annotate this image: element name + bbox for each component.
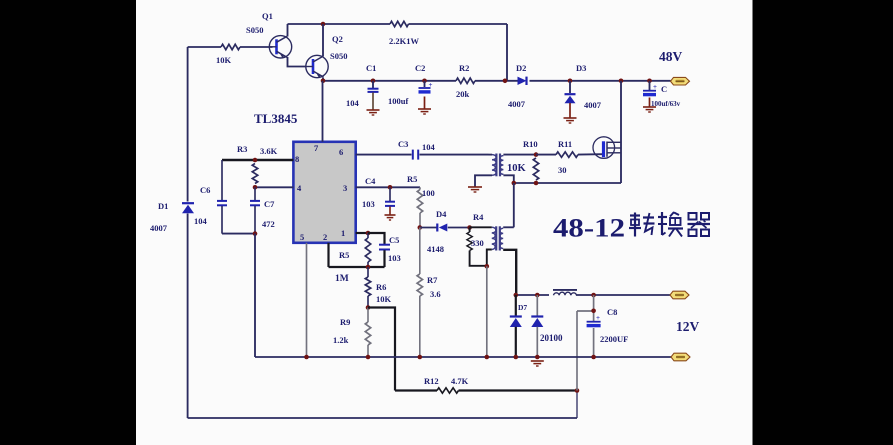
svg-text:C2: C2 (415, 63, 425, 73)
svg-text:R5: R5 (407, 174, 417, 184)
svg-text:100: 100 (422, 188, 435, 198)
node rail D7a (514, 355, 519, 360)
label D7 (518, 303, 527, 312)
ground C1 (367, 110, 380, 115)
terminal 12V- (671, 353, 690, 361)
label C6 (200, 185, 210, 195)
node D7b top (535, 293, 540, 298)
svg-text:D7: D7 (518, 303, 527, 312)
pin 1 label (341, 228, 345, 238)
transformer T2 left winding (492, 227, 496, 249)
inductor L1 (553, 290, 577, 295)
wire T1 left top (489, 154, 493, 156)
wire pin 5 leg (306, 243, 308, 357)
wire T2 left drop (486, 266, 488, 357)
wire right feedback riser (576, 391, 578, 419)
node C cap tap (647, 79, 652, 84)
wire pin 2 leg (327, 243, 329, 267)
label R12 value 4.7K (451, 376, 469, 386)
capacitor C5 (368, 233, 390, 267)
label C8 value 2200UF (600, 334, 628, 344)
wire pin 1 stub (356, 232, 368, 234)
node C2 top (422, 79, 427, 84)
svg-text:48V: 48V (659, 49, 683, 64)
label R11 value 30 (558, 165, 567, 175)
svg-text:30: 30 (558, 165, 567, 175)
resistor R5b 100 (417, 187, 422, 227)
resistor 10K (Q1 base) (221, 44, 240, 49)
svg-text:Q1: Q1 (262, 11, 273, 21)
terminal 48V (671, 77, 690, 85)
svg-text:R5: R5 (339, 250, 349, 260)
transformer T1 right winding (500, 156, 503, 175)
node top rail / Q2 collector (321, 22, 326, 27)
label TL3845 (254, 111, 298, 126)
label Q1 (262, 11, 273, 21)
pin 6 label (339, 147, 343, 157)
label C5 (389, 235, 399, 245)
svg-text:104: 104 (346, 98, 360, 108)
capacitor C7 (250, 187, 260, 233)
svg-text:R11: R11 (558, 139, 572, 149)
resistor R9 1.2k (365, 308, 370, 358)
svg-text:2200UF: 2200UF (600, 334, 628, 344)
ground C4 (385, 215, 396, 220)
wire D4 row (420, 227, 470, 229)
label 2.2K1W (389, 36, 419, 46)
label C8 (607, 307, 617, 317)
svg-text:100uf/63v: 100uf/63v (651, 100, 681, 108)
wire Q2 emitter (322, 78, 324, 81)
svg-text:R9: R9 (340, 317, 350, 327)
svg-text:C3: C3 (398, 139, 408, 149)
transistor Q1 (269, 36, 291, 58)
node D4 left (418, 225, 423, 230)
node pin8/R3 (253, 158, 258, 163)
svg-text:2.2K1W: 2.2K1W (389, 36, 419, 46)
label R9 value 1.2k (333, 335, 349, 345)
wire MOSFET drain drop (620, 81, 622, 183)
label R5 value 1M (335, 274, 349, 284)
transformer T2 core (496, 226, 500, 250)
label R9 (340, 317, 350, 327)
label C6 value 104 (194, 216, 208, 226)
label R2 (459, 63, 469, 73)
resistor R7 3.6 (417, 228, 422, 358)
svg-text:Q2: Q2 (332, 34, 343, 44)
svg-text:R7: R7 (427, 275, 438, 285)
wire C8 feedback riser (577, 311, 594, 391)
wire Q1 emitter to Q2 base (288, 57, 307, 67)
svg-text:330: 330 (471, 238, 484, 248)
label R12 (424, 376, 439, 386)
capacitor C4 (385, 187, 395, 214)
svg-text:+: + (653, 83, 657, 91)
resistor R5 1M (365, 233, 370, 267)
wire top rail drop (506, 24, 508, 81)
label R2 value 20k (456, 89, 470, 99)
transistor Q2 (306, 55, 328, 77)
node rail R7 (418, 355, 423, 360)
label R4 value 330 (471, 238, 484, 248)
wire source row (514, 182, 621, 184)
svg-text:S050: S050 (330, 51, 347, 61)
node rail C8 (591, 355, 596, 360)
capacitor C1 (368, 81, 379, 110)
label R11 (558, 139, 572, 149)
ground C (643, 107, 656, 112)
svg-text:C1: C1 (366, 63, 376, 73)
wire T2 right top (503, 226, 514, 228)
label 48V (659, 49, 683, 64)
capacitor C6 (217, 160, 227, 234)
svg-text:4007: 4007 (150, 223, 168, 233)
svg-text:4148: 4148 (427, 244, 444, 254)
resistor R6 10K (365, 267, 370, 308)
label R5b (407, 174, 417, 184)
svg-text:4007: 4007 (584, 100, 602, 110)
svg-text:5: 5 (300, 232, 304, 242)
label Q2 (332, 34, 343, 44)
label C3 value 104 (422, 142, 436, 152)
node D3 tap (568, 79, 573, 84)
label R3 value 3.6K (260, 146, 278, 156)
ground C2 (418, 109, 431, 114)
svg-text:2: 2 (323, 232, 327, 242)
label title 48-12 (553, 213, 625, 243)
svg-text:12V: 12V (676, 319, 700, 334)
label R7 value 3.6 (430, 289, 441, 299)
node rail T2 (485, 355, 490, 360)
label C1 (366, 63, 376, 73)
label 12V (676, 319, 700, 334)
svg-text:472: 472 (262, 219, 275, 229)
svg-text:C5: C5 (389, 235, 399, 245)
wire pin 6 (356, 154, 489, 156)
svg-text:C4: C4 (365, 176, 376, 186)
node R5 bottom (366, 265, 371, 270)
svg-text:D2: D2 (516, 63, 526, 73)
label C value 100uf/63v (651, 100, 681, 108)
node C8 feedback tap (591, 309, 596, 314)
diode D4 (437, 224, 447, 232)
wire feedback to R12 (368, 308, 395, 391)
label D4 (436, 209, 447, 219)
ground D3 (564, 118, 577, 123)
label C plus (653, 83, 657, 91)
svg-text:3.6: 3.6 (430, 289, 441, 299)
node rail pin5 (304, 355, 309, 360)
svg-text:D4: D4 (436, 209, 447, 219)
svg-text:S050: S050 (246, 25, 263, 35)
label C7 (264, 199, 275, 209)
wire C6-C7 bottom (222, 233, 255, 235)
pin 8 label (295, 154, 299, 164)
svg-text:4007: 4007 (508, 99, 526, 109)
wire T2 right bottom (503, 250, 516, 295)
svg-text:R12: R12 (424, 376, 439, 386)
label R6 value 10K (376, 294, 392, 304)
wire T1 right top (503, 154, 536, 156)
label C4 (365, 176, 376, 186)
label C2 plus (429, 81, 433, 89)
ground output (531, 361, 544, 366)
label R10 value 10K (507, 163, 527, 174)
label R3 (237, 144, 247, 154)
svg-text:20100: 20100 (540, 333, 563, 343)
node MOSFET drain tap (619, 79, 624, 84)
label C2 (415, 63, 425, 73)
label D7 value 20100 (540, 333, 563, 343)
transformer T1 core (496, 154, 500, 177)
capacitor C2 (419, 81, 431, 109)
label title char huan (658, 212, 683, 237)
label C1 value 104 (346, 98, 360, 108)
label R6 (376, 282, 386, 292)
svg-text:1M: 1M (335, 274, 349, 284)
wire Q1 collector (287, 24, 289, 37)
label D4 value 4148 (427, 244, 444, 254)
ground T1 (468, 187, 482, 192)
node R10 top (534, 152, 539, 157)
wire pin 7 VCC (322, 81, 324, 142)
svg-text:1: 1 (341, 228, 345, 238)
capacitor C3 (413, 150, 418, 160)
transformer T1 left winding (492, 155, 496, 176)
MOSFET Q3 (593, 137, 621, 159)
svg-text:4.7K: 4.7K (451, 376, 469, 386)
wire left border vertical (187, 47, 189, 418)
node R4 top (467, 225, 472, 230)
wire T2 left bottom (487, 250, 492, 267)
label D2 value 4007 (508, 99, 526, 109)
label R5 (339, 250, 349, 260)
label D2 (516, 63, 526, 73)
resistor R12 4.7K (437, 388, 459, 393)
label R10 (523, 139, 538, 149)
svg-text:C6: C6 (200, 185, 210, 195)
pin 5 label (300, 232, 304, 242)
node T2 drop (512, 181, 517, 186)
label C2 value 100uf (388, 96, 408, 106)
node C4 tap (388, 185, 393, 190)
svg-text:+: + (596, 314, 600, 322)
diode D7a (510, 295, 522, 357)
svg-text:R4: R4 (473, 212, 484, 222)
diode D3 branch (565, 81, 576, 118)
svg-text:103: 103 (388, 253, 401, 263)
diode D2 (518, 77, 527, 85)
node R6 bottom (366, 305, 371, 310)
svg-text:C8: C8 (607, 307, 617, 317)
label D3 (576, 63, 586, 73)
IC U1 TL3845 body (293, 142, 355, 243)
wire T2 left top (470, 226, 492, 228)
label C8 plus (596, 314, 600, 322)
wire R12 rail (395, 389, 577, 391)
svg-text:8: 8 (295, 154, 299, 164)
wire pin3 row (356, 186, 420, 188)
svg-text:C7: C7 (264, 199, 275, 209)
label C (661, 84, 667, 94)
wire pin 8 (222, 159, 293, 161)
terminal 12V+ (670, 291, 689, 299)
label title char zhuan (629, 213, 655, 237)
svg-text:103: 103 (362, 199, 375, 209)
svg-text:1.2k: 1.2k (333, 335, 349, 345)
svg-text:D3: D3 (576, 63, 586, 73)
node Q2 emitter (321, 79, 326, 84)
svg-text:10K: 10K (216, 55, 232, 65)
node R2/D2 (503, 79, 508, 84)
resistor 2.2K 1W (390, 21, 409, 26)
label R4 (473, 212, 484, 222)
label D1 (158, 201, 168, 211)
label Q1 S050 (246, 25, 263, 35)
diode D1 (182, 203, 194, 213)
node rail R9 (366, 355, 371, 360)
svg-text:R3: R3 (237, 144, 247, 154)
svg-text:3.6K: 3.6K (260, 146, 278, 156)
node R10 bottom (534, 181, 539, 186)
capacitor C8 (587, 295, 601, 357)
label C3 (398, 139, 408, 149)
resistor R10 10K (533, 158, 538, 180)
label R5b value 100 (422, 188, 435, 198)
capacitor C (input) (643, 81, 656, 107)
node pin1 (366, 231, 371, 236)
wire T1 right bottom (503, 175, 513, 183)
label title char qi (688, 213, 711, 236)
svg-text:100uf: 100uf (388, 96, 408, 106)
wire ground rail (255, 356, 671, 358)
wire pin2-R5-C5 bottom (329, 266, 385, 268)
svg-text:R10: R10 (523, 139, 538, 149)
svg-text:20k: 20k (456, 89, 470, 99)
wire VCC rail (323, 80, 671, 82)
node C7 bottom (253, 231, 258, 236)
pin 2 label (323, 232, 327, 242)
wire T1 left bottom to ground (475, 175, 492, 186)
resistor R2 (456, 78, 475, 83)
svg-text:10K: 10K (507, 163, 527, 174)
label 10K (216, 55, 232, 65)
wire output top row (516, 294, 670, 296)
wire bottom border (188, 417, 577, 419)
svg-text:104: 104 (194, 216, 208, 226)
node C8 top (591, 293, 596, 298)
svg-text:48-12: 48-12 (553, 213, 625, 243)
diode D7b (531, 295, 543, 357)
label Q2 S050 (330, 51, 347, 61)
pin 4 label (297, 183, 302, 193)
label C4 value 103 (362, 199, 375, 209)
resistor R11 30 (556, 152, 578, 157)
svg-text:D1: D1 (158, 201, 168, 211)
label D1 value 4007 (150, 223, 168, 233)
node pin4/C7 (253, 185, 258, 190)
svg-text:R6: R6 (376, 282, 386, 292)
wire T1 drop to T2 (513, 183, 515, 227)
node C1 top (371, 79, 376, 84)
svg-text:104: 104 (422, 142, 436, 152)
node rail D7b (535, 355, 540, 360)
svg-text:6: 6 (339, 147, 343, 157)
node R12 right (575, 388, 580, 393)
wire Q1 base (188, 46, 273, 48)
label R7 (427, 275, 438, 285)
resistor R4 330 (467, 228, 487, 266)
wire R11 row (536, 153, 602, 155)
svg-text:3: 3 (343, 183, 347, 193)
label D3 value 4007 (584, 100, 602, 110)
svg-text:TL3845: TL3845 (254, 111, 298, 126)
wire top rail (288, 23, 508, 25)
transformer T2 right winding (500, 228, 503, 248)
svg-text:+: + (429, 81, 433, 89)
pin 7 label (314, 143, 319, 153)
label C7 value 472 (262, 219, 275, 229)
svg-text:C: C (661, 84, 667, 94)
wire pin 4 (255, 186, 293, 188)
wire Q2 collector (322, 24, 324, 56)
label C5 value 103 (388, 253, 401, 263)
svg-text:10K: 10K (376, 294, 392, 304)
pin 3 label (343, 183, 347, 193)
node D7a top (514, 293, 519, 298)
node T2 snubber (485, 264, 490, 269)
svg-text:R2: R2 (459, 63, 469, 73)
wire x255 to ground rail (254, 234, 256, 357)
resistor R3 3.6K (252, 164, 257, 184)
